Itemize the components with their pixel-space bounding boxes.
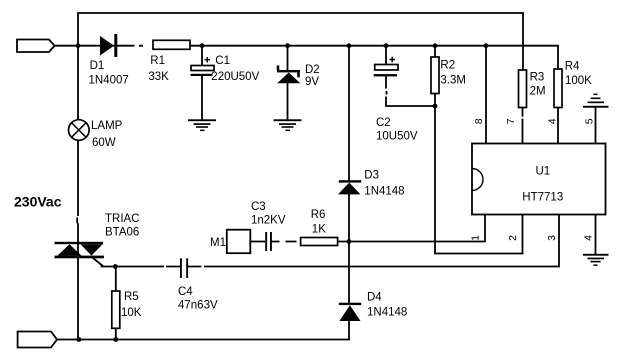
svg-text:D1: D1 bbox=[90, 60, 105, 72]
svg-text:2M: 2M bbox=[530, 86, 546, 98]
wire bottom rail bbox=[57, 339, 350, 341]
wire pin1 path bbox=[349, 215, 485, 242]
diode D4 bbox=[339, 303, 361, 321]
triac Q1 BTA06 bbox=[55, 242, 105, 259]
svg-text:1n2KV: 1n2KV bbox=[251, 215, 286, 227]
svg-text:2: 2 bbox=[507, 235, 519, 241]
svg-text:9V: 9V bbox=[305, 76, 319, 88]
junction node D3 top bbox=[347, 43, 352, 48]
wire triac gate bbox=[93, 258, 104, 267]
svg-text:R6: R6 bbox=[311, 209, 326, 221]
wire pin5 to ground bbox=[595, 107, 597, 144]
svg-text:7: 7 bbox=[505, 118, 517, 124]
svg-text:10K: 10K bbox=[121, 307, 142, 319]
svg-text:47n63V: 47n63V bbox=[178, 300, 218, 312]
svg-text:D2: D2 bbox=[305, 64, 320, 76]
svg-text:R2: R2 bbox=[440, 60, 455, 72]
wire R2 branch bbox=[434, 46, 436, 106]
svg-text:TRIAC: TRIAC bbox=[105, 213, 140, 225]
wire D2 branch bbox=[287, 46, 289, 120]
svg-text:BTA06: BTA06 bbox=[105, 227, 139, 239]
svg-text:33K: 33K bbox=[148, 71, 169, 83]
zener diode D2 bbox=[277, 66, 301, 84]
junction node bottom rail triac bbox=[77, 337, 82, 342]
svg-text:1N4148: 1N4148 bbox=[364, 186, 404, 198]
svg-text:C3: C3 bbox=[251, 201, 266, 213]
svg-text:8: 8 bbox=[473, 118, 485, 124]
wire pin4 bottom to ground bbox=[595, 215, 597, 254]
svg-text:1N4007: 1N4007 bbox=[89, 75, 129, 87]
wire C2 branch bbox=[386, 46, 435, 106]
wire main rail bbox=[55, 46, 558, 69]
lamp LAMP 60W bbox=[69, 120, 90, 141]
svg-text:R4: R4 bbox=[565, 61, 580, 73]
resistor R2 bbox=[431, 57, 439, 94]
svg-text:R1: R1 bbox=[150, 55, 165, 67]
ground below C1 bbox=[188, 119, 216, 131]
wire M1-C3-R6 bbox=[250, 241, 349, 243]
wire lamp-triac vertical bbox=[76, 46, 79, 340]
diode D3 bbox=[338, 180, 361, 194]
IC U1 HT7713 bbox=[472, 144, 606, 215]
resistor R5 bbox=[112, 291, 120, 328]
svg-text:1K: 1K bbox=[312, 224, 326, 236]
svg-text:230Vac: 230Vac bbox=[14, 194, 62, 210]
capacitor C3 bbox=[265, 232, 272, 251]
junction node gate R5 bbox=[113, 264, 118, 269]
resistor R6 bbox=[301, 238, 338, 246]
resistor R4 bbox=[554, 69, 562, 108]
junction node bottom rail R5 bbox=[113, 337, 118, 342]
resistor R3 bbox=[519, 70, 527, 108]
svg-text:10U50V: 10U50V bbox=[376, 131, 418, 143]
svg-text:LAMP: LAMP bbox=[91, 120, 123, 132]
junction node D3 D4 R6 bbox=[347, 239, 352, 244]
wire top rail bbox=[78, 13, 523, 70]
wire R3 to pin7 bbox=[522, 108, 524, 144]
svg-text:M1: M1 bbox=[210, 237, 226, 249]
svg-text:HT7713: HT7713 bbox=[522, 192, 563, 204]
ground below pin4 bbox=[583, 254, 609, 266]
junction node R2 bottom bbox=[433, 104, 438, 109]
svg-text:C2: C2 bbox=[376, 117, 391, 129]
ground below D2 bbox=[274, 119, 302, 131]
svg-text:R5: R5 bbox=[124, 291, 139, 303]
junction node C1 bbox=[200, 43, 205, 48]
wire pin8 bbox=[485, 46, 487, 144]
svg-text:C4: C4 bbox=[178, 286, 193, 298]
svg-text:R3: R3 bbox=[530, 72, 545, 84]
svg-text:U1: U1 bbox=[536, 166, 551, 178]
wire pin3 path bbox=[101, 215, 560, 267]
terminal J1 top bbox=[17, 40, 55, 53]
junction node D2 bbox=[285, 43, 290, 48]
junction node R2 top bbox=[433, 43, 438, 48]
svg-text:5: 5 bbox=[584, 118, 596, 124]
svg-text:220U50V: 220U50V bbox=[211, 71, 259, 83]
resistor R1 bbox=[153, 40, 190, 49]
svg-text:1: 1 bbox=[469, 235, 481, 241]
svg-text:4: 4 bbox=[582, 235, 594, 241]
junction node C2 top bbox=[384, 43, 389, 48]
diode D1 bbox=[100, 34, 117, 57]
svg-text:C1: C1 bbox=[215, 55, 230, 67]
svg-text:60W: 60W bbox=[92, 137, 116, 149]
ground above pin5 (inverted) bbox=[583, 94, 609, 108]
wire node pin2 path bbox=[435, 106, 523, 254]
wire C1 branch bbox=[201, 46, 203, 120]
wire D3 D4 column bbox=[348, 46, 350, 340]
svg-text:3: 3 bbox=[546, 235, 558, 241]
junction node on rail at terminal bbox=[76, 43, 81, 48]
microphone M1 bbox=[227, 230, 251, 254]
svg-text:D3: D3 bbox=[364, 170, 379, 182]
capacitor C2 bbox=[374, 57, 398, 77]
capacitor C4 bbox=[180, 258, 188, 278]
svg-text:4: 4 bbox=[546, 118, 558, 124]
svg-text:D4: D4 bbox=[367, 292, 382, 304]
wire R5 column bbox=[115, 267, 117, 340]
svg-text:1N4148: 1N4148 bbox=[367, 307, 407, 319]
svg-text:3.3M: 3.3M bbox=[440, 75, 466, 87]
svg-text:100K: 100K bbox=[565, 75, 592, 87]
terminal J2 bottom bbox=[18, 332, 57, 348]
wire R4 to pin4 bbox=[557, 108, 559, 144]
capacitor C1 bbox=[191, 57, 215, 76]
junction node pin8 bbox=[484, 43, 489, 48]
